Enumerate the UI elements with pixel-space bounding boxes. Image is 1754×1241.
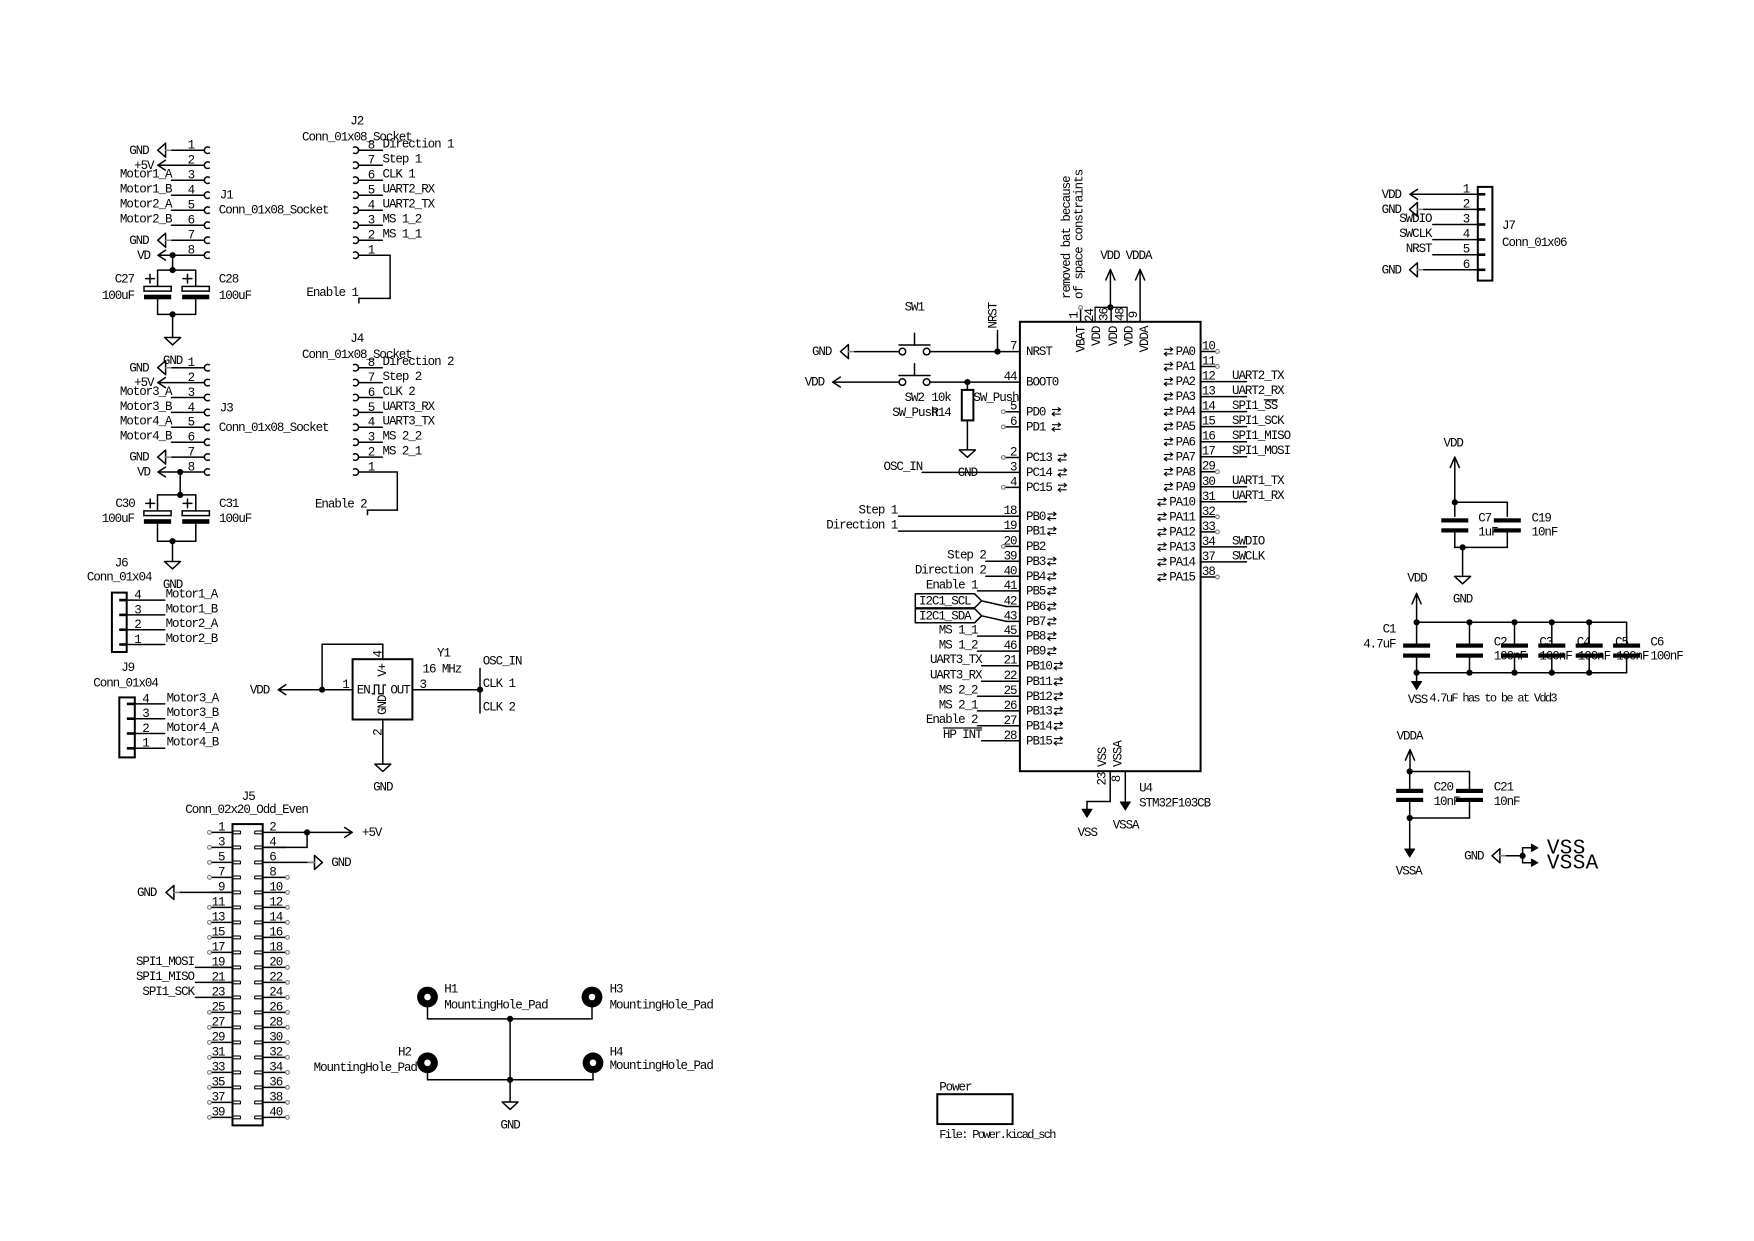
capacitor C21: [1456, 781, 1520, 810]
svg-text:Motor4_A: Motor4_A: [167, 721, 220, 735]
svg-text:10nF: 10nF: [1532, 526, 1558, 540]
svg-text:PA2: PA2: [1176, 375, 1196, 389]
capacitor C3: [1501, 635, 1572, 663]
wire PA5 to SPI1_SCK: [1201, 426, 1247, 428]
svg-text:C31: C31: [219, 497, 239, 511]
svg-text:C27: C27: [115, 272, 135, 286]
svg-text:VSS: VSS: [1078, 826, 1098, 840]
junction bottom rail: [169, 538, 175, 544]
svg-text:Direction 1: Direction 1: [383, 138, 455, 152]
unconnected stub PA11: [1201, 515, 1220, 519]
mounting hole H2: [314, 1045, 438, 1075]
net label Step 1: [858, 504, 897, 518]
net label Direction 1 at J2 pin 8: [383, 138, 455, 152]
net label Enable 1: [306, 286, 358, 300]
pin 15 PA5: [1164, 415, 1215, 435]
svg-text:PA0: PA0: [1176, 345, 1196, 359]
wire: [172, 456, 204, 458]
svg-text:OSC_IN: OSC_IN: [884, 460, 923, 474]
capacitor C4: [1538, 635, 1610, 663]
wire: [158, 382, 204, 384]
wire: [172, 426, 205, 428]
net label Motor2_A at J6 pin 2: [166, 617, 219, 631]
unconnected stub PA1: [1201, 365, 1220, 369]
wire SW2/R14 to BOOT0 pin: [930, 381, 1020, 383]
hierarchical label GND at SW1: [812, 345, 855, 360]
svg-text:Motor2_B: Motor2_B: [166, 632, 219, 646]
svg-text:U4: U4: [1139, 782, 1152, 796]
svg-text:C21: C21: [1494, 781, 1514, 795]
global label +5V at J3 pin 2: [134, 376, 166, 390]
net label Step 2 at J4 pin 7: [383, 370, 422, 384]
pin 16 PA6: [1164, 430, 1215, 450]
ground symbol below mounting holes: [500, 1102, 520, 1132]
junction top rail: [177, 492, 183, 498]
svg-text:Motor2_A: Motor2_A: [120, 198, 173, 212]
svg-text:MS 1_2: MS 1_2: [939, 639, 978, 653]
ground symbol below R14: [958, 450, 978, 480]
wire: [899, 515, 1020, 517]
wire J5 pin 6 to GND: [286, 861, 315, 863]
net label SWCLK at J7 pin 4: [1399, 227, 1433, 241]
svg-text:PD0: PD0: [1026, 405, 1046, 419]
net label MS 2_2 at J4 pin 3: [383, 430, 422, 444]
wire VD to capacitor rail: [172, 255, 174, 270]
net label SPI1_MISO at J5 pin 21: [136, 970, 195, 984]
mounting hole H1: [417, 983, 548, 1013]
ground symbol below Y1: [373, 764, 393, 794]
wire: [172, 224, 205, 226]
svg-text:28: 28: [269, 1015, 282, 1029]
net label Motor3_A: [120, 385, 173, 399]
svg-text:Conn_01x04: Conn_01x04: [87, 571, 152, 585]
svg-text:Conn_01x08_Socket: Conn_01x08_Socket: [219, 204, 329, 218]
svg-text:8: 8: [269, 865, 276, 879]
svg-text:4.7uF has to be at Vdd3: 4.7uF has to be at Vdd3: [1429, 691, 1557, 705]
svg-text:UART2_RX: UART2_RX: [383, 183, 436, 197]
net label MS 1_1 at J2 pin 2: [383, 228, 422, 242]
power symbol VDDA above MCU: [1126, 249, 1153, 281]
junction: [304, 829, 310, 835]
global label VDD at Y1 pin 1: [250, 683, 286, 697]
svg-text:4: 4: [134, 589, 141, 603]
svg-text:HP INT: HP INT: [943, 728, 983, 742]
junction dots top rail: [1414, 619, 1593, 625]
wire VDD to Y1 pin 1: [278, 689, 352, 691]
net label Motor1_B at J6 pin 3: [166, 602, 219, 616]
svg-text:SW2: SW2: [905, 391, 925, 405]
svg-text:Conn_01x04: Conn_01x04: [93, 677, 158, 691]
svg-text:VDD: VDD: [1122, 326, 1136, 346]
svg-text:Motor1_A: Motor1_A: [120, 168, 173, 182]
svg-text:J2: J2: [350, 114, 363, 128]
svg-text:PA3: PA3: [1176, 390, 1196, 404]
switch SW2: [892, 364, 938, 421]
wire PA7 to SPI1_MOSI: [1201, 456, 1247, 458]
wire J2 pin 1 to Enable 1: [359, 255, 391, 303]
junction dots bottom rail: [1414, 670, 1593, 676]
net label Enable 1: [926, 578, 978, 592]
net label Motor1_A: [120, 168, 173, 182]
svg-text:37: 37: [212, 1090, 225, 1104]
net label CLK 1: [483, 677, 516, 691]
svg-text:14: 14: [269, 910, 282, 924]
svg-text:PB1: PB1: [1026, 525, 1046, 539]
svg-text:Step 2: Step 2: [383, 370, 422, 384]
svg-text:GND: GND: [129, 144, 149, 158]
svg-text:VDD: VDD: [1382, 188, 1402, 202]
svg-text:I2C1_SDA: I2C1_SDA: [919, 610, 972, 624]
global label VDD at J7 pin 1: [1382, 188, 1418, 202]
wire C20 to VSSA: [1409, 818, 1411, 849]
global label I2C1_SCL: [915, 594, 981, 609]
svg-text:VD: VD: [137, 466, 150, 480]
svg-text:MountingHole_Pad: MountingHole_Pad: [610, 1059, 714, 1073]
svg-text:UART3_TX: UART3_TX: [930, 653, 983, 667]
svg-text:32: 32: [269, 1045, 282, 1059]
wire: [195, 966, 232, 968]
svg-text:CLK 2: CLK 2: [483, 700, 516, 714]
capacitor C20: [1396, 781, 1460, 810]
wire GND to J5 pin 9: [180, 891, 232, 893]
svg-text:40: 40: [269, 1105, 282, 1119]
svg-text:PA10: PA10: [1169, 495, 1195, 509]
global label +5V at J1 pin 2: [134, 159, 166, 173]
svg-text:Motor2_A: Motor2_A: [166, 617, 219, 631]
wire C27/C28 bottom rail: [158, 299, 196, 314]
net label SWDIO: [1232, 534, 1265, 548]
pin 28 PB15: [1004, 729, 1063, 749]
svg-text:3: 3: [142, 707, 149, 721]
svg-text:PB14: PB14: [1026, 719, 1052, 733]
svg-text:38: 38: [269, 1090, 282, 1104]
pin 40 PB4: [1004, 564, 1057, 584]
wire C27/C28 top rail: [158, 270, 196, 286]
svg-text:VSSA: VSSA: [1396, 864, 1423, 878]
svg-text:SWCLK: SWCLK: [1399, 227, 1433, 241]
wire PA9 to UART1_TX: [1201, 486, 1247, 488]
pin 32 PA11: [1158, 505, 1216, 525]
pin 20 PB2: [1004, 534, 1046, 554]
svg-text:Motor3_A: Motor3_A: [167, 691, 220, 705]
net label CLK 2: [483, 700, 516, 714]
wire: [1416, 593, 1418, 622]
svg-text:SWDIO: SWDIO: [1399, 212, 1432, 226]
svg-text:11: 11: [212, 895, 225, 909]
capacitor C2: [1456, 635, 1527, 663]
wire Y1 pin 2 to ground: [382, 720, 384, 765]
svg-text:MountingHole_Pad: MountingHole_Pad: [444, 998, 548, 1012]
pin 42 PB6: [1004, 595, 1057, 615]
wire R14 to ground: [966, 420, 968, 449]
pin 12 PA2: [1164, 370, 1215, 390]
svg-text:23: 23: [1096, 772, 1110, 785]
svg-text:2: 2: [269, 820, 276, 834]
capacitor C5: [1576, 635, 1649, 663]
wire C30/C31 top rail: [158, 495, 196, 511]
connector J5: [185, 790, 308, 1126]
svg-text:Conn_01x06: Conn_01x06: [1502, 236, 1567, 250]
junction bottom rail: [170, 311, 176, 317]
svg-text:PA14: PA14: [1169, 556, 1195, 570]
svg-text:1: 1: [142, 737, 149, 751]
net label Enable 2: [315, 498, 367, 512]
wire: [172, 239, 204, 241]
power symbol VDDA above C20: [1397, 729, 1424, 760]
unconnected stub PA8: [1201, 470, 1220, 474]
svg-text:VSS: VSS: [1408, 693, 1428, 707]
net label MS 2_2: [939, 684, 978, 698]
svg-text:PB9: PB9: [1026, 645, 1046, 659]
svg-text:VDDA: VDDA: [1126, 249, 1153, 263]
svg-text:C6: C6: [1650, 635, 1663, 649]
svg-text:Motor3_A: Motor3_A: [120, 385, 173, 399]
svg-text:J5: J5: [242, 790, 255, 804]
net label OSC_IN: [483, 654, 522, 668]
wire: [833, 381, 899, 383]
junction: [1107, 304, 1113, 310]
svg-text:VDD: VDD: [1090, 326, 1104, 346]
net label Motor2_B: [120, 213, 173, 227]
pin 44 BOOT0: [1004, 370, 1059, 390]
svg-text:OSC_IN: OSC_IN: [483, 654, 522, 668]
net label SPI1_MOSI: [1232, 444, 1291, 458]
svg-text:PA6: PA6: [1176, 435, 1196, 449]
svg-text:C30: C30: [115, 497, 135, 511]
global label VD at J1 pin 8: [137, 249, 166, 263]
svg-text:PA15: PA15: [1169, 571, 1195, 585]
svg-text:H1: H1: [444, 983, 457, 997]
pin 3 PC14 / OSC_IN: [1010, 460, 1067, 480]
wire C7/C19 top rail: [1455, 502, 1508, 516]
junction top rail: [170, 267, 176, 273]
svg-text:100uF: 100uF: [102, 289, 135, 303]
wire to ground: [1462, 547, 1464, 576]
svg-text:CLK 2: CLK 2: [383, 385, 416, 399]
wire H2/H4 to gnd bus: [428, 1073, 594, 1080]
svg-text:UART2_RX: UART2_RX: [1232, 384, 1285, 398]
svg-text:Direction 1: Direction 1: [826, 519, 898, 533]
pin 19 PB1: [1004, 519, 1057, 539]
svg-text:26: 26: [269, 1000, 282, 1014]
svg-text:VBAT: VBAT: [1075, 325, 1089, 352]
wire: [982, 680, 1020, 682]
net label CLK 2 at J4 pin 6: [383, 385, 416, 399]
svg-text:9: 9: [1127, 311, 1141, 318]
stacked pin 48 VDD: [1111, 307, 1136, 346]
svg-text:C7: C7: [1478, 512, 1491, 526]
pin 5 PD0 (unconnected): [1002, 400, 1061, 420]
svg-text:GND: GND: [1453, 593, 1473, 607]
svg-text:18: 18: [269, 940, 282, 954]
wire VSS to power symbol: [1087, 771, 1110, 809]
svg-text:Direction 2: Direction 2: [915, 564, 987, 578]
net label Enable 2: [926, 713, 978, 727]
wire: [1433, 213, 1478, 227]
svg-text:GND: GND: [373, 780, 393, 794]
wire: [158, 471, 204, 473]
pin 13 PA3: [1164, 385, 1215, 405]
svg-text:Enable 1: Enable 1: [306, 286, 358, 300]
svg-text:GND: GND: [137, 886, 157, 900]
svg-text:35: 35: [212, 1075, 225, 1089]
svg-text:VDD: VDD: [1407, 572, 1427, 586]
svg-text:NRST: NRST: [987, 301, 1001, 328]
global label +5V at J5: [344, 826, 383, 840]
oscillator Y1: [342, 647, 461, 736]
svg-text:SPI1_MOSI: SPI1_MOSI: [1232, 444, 1291, 458]
net label UART1_TX: [1232, 474, 1285, 488]
wire PA3 to UART2_RX: [1201, 396, 1247, 398]
junction at J3 pin 8 / VD: [177, 469, 183, 475]
wire C30/C31 bottom rail: [158, 524, 196, 541]
junction: [1407, 768, 1413, 774]
global label I2C1_SDA: [915, 609, 981, 624]
wire Y1 pin 3 / OUT: [412, 689, 480, 691]
svg-text:NRST: NRST: [1406, 242, 1433, 256]
global label VDD at SW2: [805, 376, 841, 390]
svg-text:39: 39: [212, 1105, 225, 1119]
svg-text:PA7: PA7: [1176, 450, 1196, 464]
wire CLK node: [479, 668, 481, 713]
svg-text:SWCLK: SWCLK: [1232, 549, 1266, 563]
svg-text:Motor1_A: Motor1_A: [166, 588, 219, 602]
svg-text:48: 48: [1114, 308, 1128, 321]
junction: [507, 1077, 513, 1083]
svg-text:PB8: PB8: [1026, 630, 1046, 644]
svg-text:16: 16: [269, 925, 282, 939]
pin 37 PA14: [1158, 550, 1216, 570]
svg-text:VDDA: VDDA: [1397, 729, 1424, 743]
svg-text:Motor3_B: Motor3_B: [120, 400, 173, 414]
pin 11 PA1: [1164, 355, 1215, 375]
net label SPI1_MOSI at J5 pin 19: [136, 955, 195, 969]
power symbol VSSA at fork: [1531, 853, 1598, 876]
svg-text:MS 1_1: MS 1_1: [939, 624, 978, 638]
junction: [477, 687, 483, 693]
ground symbol below C27/C28: [163, 338, 183, 368]
svg-text:8: 8: [1110, 775, 1124, 782]
svg-text:100uF: 100uF: [102, 512, 135, 526]
net label NRST (vertical): [987, 301, 1001, 328]
wire: [978, 635, 1020, 637]
wire PA2 to UART2_TX: [1201, 381, 1247, 383]
wire SW1 to NRST pin: [930, 351, 1020, 353]
power symbol VSS below MCU: [1078, 809, 1098, 840]
wire PA13 to SWDIO: [1201, 546, 1247, 548]
svg-text:VDD: VDD: [250, 683, 270, 697]
svg-text:25: 25: [212, 1000, 225, 1014]
net label SPI1_SCK: [1232, 414, 1285, 428]
wire C1-C6 top rail: [1417, 622, 1627, 643]
svg-text:PA12: PA12: [1169, 526, 1195, 540]
net label UART3_RX at J4 pin 5: [383, 400, 436, 414]
net label CLK 1 at J2 pin 6: [383, 168, 416, 182]
connector J6: [87, 557, 165, 652]
svg-text:V+: V+: [376, 663, 390, 676]
net label MS 1_2 at J2 pin 3: [383, 213, 422, 227]
svg-text:3: 3: [218, 835, 225, 849]
pin 33 PA12: [1158, 520, 1216, 540]
wire: [158, 254, 204, 256]
svg-text:VSSA: VSSA: [1113, 819, 1140, 833]
wire J5 pin 2 to +5V: [286, 831, 353, 833]
svg-text:3: 3: [134, 603, 141, 617]
svg-text:J3: J3: [220, 402, 233, 416]
power symbol VSS at fork: [1531, 837, 1585, 860]
switch SW1: [899, 300, 1019, 405]
svg-text:Step 2: Step 2: [947, 549, 986, 563]
pin 6 PD1 (unconnected): [1002, 415, 1061, 435]
wire PA4 to SPI1_SS: [1201, 411, 1247, 413]
svg-text:STM32F103CB: STM32F103CB: [1139, 797, 1212, 811]
svg-text:File: Power.kicad_sch: File: Power.kicad_sch: [939, 1128, 1056, 1142]
wire +5V to J5 pin 4: [263, 832, 307, 847]
svg-text:MS 2_1: MS 2_1: [383, 445, 422, 459]
svg-text:GND: GND: [812, 345, 832, 359]
svg-text:PA8: PA8: [1176, 465, 1196, 479]
svg-text:SPI1_MOSI: SPI1_MOSI: [136, 955, 195, 969]
wire NRST label stub: [997, 330, 999, 351]
svg-text:29: 29: [212, 1030, 225, 1044]
junction: [994, 349, 1000, 355]
net label Direction 1: [826, 519, 898, 533]
wire BOOT0 to R14: [966, 382, 968, 390]
note removed bat because of space constraints: [1060, 169, 1086, 299]
power symbol VDD above C1: [1407, 572, 1427, 605]
wire: [172, 441, 205, 443]
connector J4: [302, 332, 412, 475]
connector J7: [1478, 187, 1567, 281]
capacitor C30: [102, 497, 171, 526]
net label UART3_RX: [930, 669, 983, 683]
pin 18 PB0: [1004, 504, 1057, 524]
wire: [172, 194, 205, 196]
svg-text:15: 15: [212, 925, 225, 939]
net label Step 2: [947, 549, 986, 563]
pin 1 VBAT (unconnected): [1068, 306, 1089, 353]
wire: [172, 179, 205, 181]
pin 17 PA7: [1164, 445, 1215, 465]
svg-text:UART3_RX: UART3_RX: [383, 400, 436, 414]
svg-text:VDDA: VDDA: [1138, 325, 1152, 352]
net label UART2_TX at J2 pin 4: [383, 198, 436, 212]
svg-text:C1: C1: [1383, 623, 1396, 637]
svg-text:UART1_RX: UART1_RX: [1232, 489, 1285, 503]
svg-text:Motor4_A: Motor4_A: [120, 415, 173, 429]
svg-text:PA11: PA11: [1169, 510, 1195, 524]
wire: [195, 996, 232, 998]
pin 2 PC13 (unconnected): [1002, 446, 1067, 466]
svg-text:NRST: NRST: [1026, 345, 1053, 359]
svg-text:VSS: VSS: [1096, 747, 1110, 767]
svg-text:Motor2_B: Motor2_B: [120, 213, 173, 227]
svg-text:PA13: PA13: [1169, 541, 1195, 555]
svg-text:10nF: 10nF: [1494, 795, 1520, 809]
svg-text:J9: J9: [121, 661, 134, 675]
svg-text:Step 1: Step 1: [858, 504, 897, 518]
note 4.7uF has to be at Vdd3: [1429, 691, 1557, 705]
wire: [172, 149, 204, 151]
power symbol VSSA below MCU: [1113, 802, 1140, 833]
capacitor C31: [182, 497, 252, 526]
svg-text:2: 2: [142, 722, 149, 736]
svg-text:PB11: PB11: [1026, 675, 1052, 689]
svg-text:Motor4_B: Motor4_B: [120, 430, 173, 444]
svg-text:16 MHz: 16 MHz: [423, 663, 462, 677]
unconnected stub PA0: [1201, 350, 1220, 354]
net label OSC_IN: [884, 460, 923, 474]
